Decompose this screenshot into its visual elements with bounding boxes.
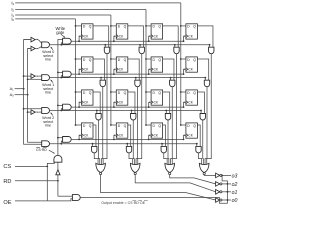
node write row0 stub1 [113, 40, 115, 42]
wire CK stub row1 col1 [113, 69, 116, 74]
and-gate read row0 col0 [104, 47, 109, 53]
node word0 write-gate tap [60, 44, 62, 46]
svg-text:line: line [45, 58, 51, 62]
svg-text:Q: Q [124, 58, 127, 62]
node data col0 row2 [75, 91, 77, 93]
wire Q output row1 col0 [93, 59, 104, 80]
wire D input row2 col1 [111, 91, 116, 93]
svg-text:Q: Q [89, 124, 92, 128]
or-gate column 1 [130, 163, 140, 172]
wire gate output row2 col0 [99, 120, 100, 164]
node data col2 row1 [145, 58, 147, 60]
wire select stub row1 col1 [135, 78, 137, 81]
wire D input row3 col3 [181, 124, 186, 126]
memory cell FF02 [151, 24, 163, 39]
memory cell FF11 [116, 57, 128, 72]
wire Q output row3 col3 [197, 125, 200, 146]
node word3 gate0 tap [92, 143, 94, 145]
svg-text:RD: RD [3, 179, 11, 185]
bubble or column 2 [169, 172, 171, 174]
wire Q output row1 col1 [128, 59, 139, 80]
node data col2 row3 [145, 124, 147, 126]
node data col3 row1 [180, 58, 182, 60]
wire gate output row1 col1 [136, 87, 137, 165]
wire OR output column 3 [204, 174, 215, 177]
wire RD to OE gate [58, 195, 73, 197]
svg-text:Q: Q [193, 124, 196, 128]
wire RD down [57, 181, 59, 196]
node data col2 row2 [145, 91, 147, 93]
node enable o2 [227, 183, 229, 185]
and-gate read row1 col3 [204, 80, 209, 87]
memory cell FF30 [82, 123, 94, 138]
wire dec0 lower slant [38, 47, 41, 49]
wire data line I1 [15, 14, 111, 16]
wire output o3 [222, 174, 231, 176]
node word3 write-gate tap [60, 143, 62, 145]
memory cell FF00 [82, 24, 94, 39]
wire Q output row2 col2 [163, 92, 170, 114]
and-gate read row3 col1 [126, 146, 131, 152]
wire D input row3 col1 [111, 124, 116, 126]
wire dec2 lower2 [38, 111, 41, 113]
svg-text:Q: Q [124, 124, 127, 128]
wire dec0 upper slant [38, 40, 41, 43]
memory cell FF13 [186, 57, 198, 72]
wire CK stub row2 col2 [148, 102, 151, 107]
wire write gate 2 lower input [61, 109, 62, 111]
wire gate output row3 col3 [199, 153, 202, 164]
wire select stub row3 col2 [161, 144, 163, 147]
node bus A0 dec1 [27, 78, 29, 80]
node data col2 row0 [145, 25, 147, 27]
wire CK stub row3 col0 [78, 135, 81, 139]
and-gate word3 decoder [42, 141, 50, 147]
memory cell FF31 [116, 123, 128, 138]
and-gate read row2 col1 [131, 114, 136, 120]
wire select stub row1 col0 [100, 78, 102, 81]
and-gate read row3 col3 [196, 146, 201, 153]
wire D input row2 col2 [146, 91, 151, 93]
and-gate read row3 col0 [92, 146, 97, 153]
node write row1 stub2 [148, 73, 150, 75]
inverter word0 A0 [31, 46, 35, 51]
wire A0 [15, 94, 28, 96]
node word1 write-gate tap [60, 77, 62, 79]
svg-text:Q: Q [158, 91, 161, 95]
node write vertical row1 [57, 72, 59, 74]
arrow dec1 upper [35, 75, 36, 77]
node data col0 row3 [75, 124, 77, 126]
node data col1 row1 [110, 58, 112, 60]
and-gate read row0 col3 [209, 47, 214, 53]
wire write line row 0 [71, 40, 183, 42]
node data col0 row0 [75, 25, 77, 27]
wire CK stub row0 col1 [113, 36, 116, 41]
bubble o2 [220, 183, 222, 185]
wire gate output row0 col3 [207, 54, 212, 165]
wire select stub row3 col1 [126, 144, 128, 147]
wire OR output column 0 [101, 175, 216, 200]
node word3 gate1 tap [126, 143, 128, 145]
wire CK stub row1 col2 [148, 69, 151, 74]
node bus A1 dec1 [23, 75, 25, 77]
node write row1 stub1 [113, 73, 115, 75]
node word1 gate1 tap [135, 77, 137, 79]
node data col1 row0 [110, 25, 112, 27]
wire OE to gate [47, 199, 72, 201]
wire gate output row0 col1 [138, 54, 142, 165]
svg-text:o2: o2 [232, 182, 238, 188]
node RD [57, 180, 59, 182]
node write row2 stub1 [113, 106, 115, 108]
wire CS down [46, 166, 48, 201]
svg-text:Q: Q [124, 25, 127, 29]
arrow CS.RD label [49, 150, 53, 152]
and-gate write gate 2 [63, 104, 72, 110]
wire data column 3 vertical [180, 3, 182, 125]
node data col3 row0 [180, 25, 182, 27]
wire data line I2 [15, 9, 146, 11]
arrow write gate label [61, 34, 64, 37]
wire Q output row0 col0 [93, 26, 109, 47]
node data col0 row1 [75, 58, 77, 60]
bubble or column 1 [134, 172, 136, 174]
wire write gate 3 lower input [61, 141, 62, 144]
wire CK stub row3 col2 [148, 135, 151, 139]
node word2 gate0 tap [96, 110, 98, 112]
wire CK stub row0 col2 [148, 36, 151, 41]
svg-text:Q: Q [193, 58, 196, 62]
svg-text:Q: Q [158, 58, 161, 62]
node write row2 stub0 [78, 106, 80, 108]
wire write gate 3 upper input [58, 137, 63, 139]
and-gate write gate 0 [63, 38, 72, 44]
wire OR output column 1 [135, 175, 215, 192]
wire CK stub row1 col0 [78, 69, 81, 74]
svg-text:Q: Q [89, 25, 92, 29]
svg-text:o3: o3 [232, 173, 238, 179]
wire write enable vertical [58, 40, 63, 156]
node write row0 stub2 [148, 40, 150, 42]
wire RD [15, 180, 58, 182]
wire write line row 1 [71, 73, 183, 75]
wire Q output row3 col2 [163, 125, 166, 146]
wire data line I3 [15, 2, 181, 4]
inverter word1 A1 [31, 74, 35, 79]
wire write gate 1 lower input [61, 76, 62, 78]
wire dec2 lower [28, 111, 31, 113]
svg-text:line: line [45, 91, 51, 95]
and-gate read row1 col2 [170, 80, 175, 87]
wire write gate 2 upper input [58, 104, 63, 106]
wire Q output row3 col0 [93, 125, 96, 146]
or-gate column 2 [165, 163, 175, 172]
node A0 tap [27, 94, 29, 96]
and-gate read row1 col1 [135, 80, 140, 86]
wire A1 [15, 88, 24, 90]
svg-text:Q: Q [193, 91, 196, 95]
or-gate column 3 [199, 163, 209, 172]
bubble or column 3 [203, 172, 205, 174]
wire output o1 [222, 191, 231, 193]
wire gate output row0 col2 [172, 54, 176, 165]
node write row3 stub3 [183, 139, 185, 141]
tri-state buffer o2 [216, 182, 220, 187]
node word3 gate2 tap [161, 143, 163, 145]
arrow word 0 label [51, 48, 53, 50]
node word1 gate3 tap [204, 77, 206, 79]
wire select stub row2 col0 [96, 111, 98, 114]
wire write line row 2 [71, 106, 183, 108]
node enable o1 [227, 191, 229, 193]
svg-text:A1: A1 [10, 87, 14, 91]
node bus A0 dec2 [27, 111, 29, 113]
wire write line row 3 [71, 138, 183, 140]
wire write gate 1 upper input [58, 71, 63, 73]
node enable o3 [221, 175, 223, 177]
node word0 gate3 tap [209, 44, 211, 46]
wire Q output row2 col0 [93, 92, 100, 114]
node write row1 stub0 [78, 73, 80, 75]
bubble o1 [220, 191, 222, 193]
wire gate output row0 col0 [103, 54, 107, 165]
arrow word 2 label [51, 113, 53, 115]
wire Q output row0 col2 [163, 26, 179, 47]
wire Q output row2 col1 [128, 92, 135, 114]
wire D input row0 col2 [146, 25, 151, 27]
wire Q output row1 col2 [163, 59, 174, 80]
wire word1 select line [50, 77, 206, 79]
arrow dec2 lower [35, 111, 36, 113]
wire data line I0 [15, 18, 75, 20]
wire dec2 upper [24, 108, 42, 110]
inverter word0 A1 [31, 37, 35, 42]
node write row2 stub2 [148, 106, 150, 108]
wire gate output row3 col2 [164, 153, 167, 164]
svg-text:Q: Q [158, 124, 161, 128]
svg-text:Q: Q [89, 91, 92, 95]
svg-text:Output enable = CS·RD·OE: Output enable = CS·RD·OE [101, 201, 145, 205]
wire address bus A1 vertical [24, 40, 42, 145]
wire D input row0 col1 [111, 25, 116, 27]
and-gate read row3 col2 [161, 146, 166, 152]
node data col3 row3 [180, 124, 182, 126]
wire gate output row2 col1 [133, 120, 134, 164]
wire select stub row2 col1 [131, 111, 133, 114]
wire select stub row0 col0 [104, 45, 106, 47]
and-gate read row0 col1 [139, 47, 144, 53]
wire D input row1 col1 [111, 58, 116, 60]
node word2 gate3 tap [200, 110, 202, 112]
node CS [46, 166, 48, 168]
node write row0 stub3 [183, 40, 185, 42]
wire output o2 [222, 183, 231, 185]
wire CS up jog [47, 162, 54, 166]
wire gate output row1 col0 [101, 87, 102, 165]
wire OE [15, 200, 47, 202]
wire gate output row3 col1 [129, 153, 133, 164]
wire dec1 upper2 [38, 75, 41, 77]
wire CK stub row2 col1 [113, 102, 116, 107]
wire select stub row0 col1 [139, 45, 141, 47]
wire select stub row3 col0 [92, 144, 94, 147]
wire dec0 lower [28, 48, 31, 50]
wire D input row2 col0 [76, 91, 82, 93]
wire dec0 upper [24, 39, 31, 41]
wire D input row0 col0 [76, 25, 82, 27]
node word0 gate1 tap [139, 44, 141, 46]
wire CS [15, 165, 47, 167]
wire enable bus [80, 175, 227, 203]
wire Q output row3 col1 [128, 125, 131, 146]
wire word3 select line [50, 143, 197, 145]
arrow dec0 lower [35, 48, 36, 50]
memory cell FF03 [186, 24, 198, 39]
svg-text:gate: gate [56, 30, 65, 35]
wire output o0 [222, 199, 231, 201]
node word2 gate1 tap [131, 110, 133, 112]
svg-text:Q: Q [158, 25, 161, 29]
wire CK stub row0 col3 [183, 36, 186, 41]
wire gate output row1 col2 [171, 87, 173, 165]
and-gate output enable [72, 195, 80, 201]
wire data column 2 vertical [145, 10, 147, 126]
wire D input row1 col2 [146, 58, 151, 60]
memory cell FF23 [186, 90, 198, 105]
and-gate read row0 col2 [174, 47, 179, 53]
wire word2 select line [50, 110, 202, 112]
svg-text:OE: OE [3, 200, 11, 206]
wire OR output column 2 [170, 175, 216, 184]
wire data column 0 vertical [75, 19, 77, 125]
node word1 gate0 tap [100, 77, 102, 79]
bubble o3 [220, 174, 222, 176]
wire gate output row2 col3 [202, 120, 205, 164]
node write row1 stub3 [183, 73, 185, 75]
tri-state buffer o0 [216, 198, 220, 203]
and-gate read row2 col0 [96, 114, 101, 121]
node word2 gate2 tap [165, 110, 167, 112]
and-gate word0 decoder [42, 42, 50, 48]
wire RD up [57, 175, 59, 181]
and-gate read row2 col2 [165, 114, 170, 120]
node write row3 stub0 [78, 139, 80, 141]
wire dec1 upper [24, 75, 31, 77]
node enable o0 [227, 199, 229, 201]
tri-state buffer o1 [216, 190, 220, 195]
wire gate output row3 col0 [94, 153, 98, 164]
node word1 gate2 tap [170, 77, 172, 79]
wire write gate 0 lower input [61, 43, 62, 45]
node data col1 row2 [110, 91, 112, 93]
wire data column 1 vertical [110, 15, 112, 125]
node word2 write-gate tap [60, 110, 62, 112]
memory cell FF33 [186, 123, 198, 138]
node write row3 stub1 [113, 139, 115, 141]
svg-text:A0: A0 [10, 93, 14, 97]
wire dec1 lower [28, 78, 42, 80]
wire select stub row0 col3 [209, 45, 211, 47]
wire select stub row0 col2 [174, 45, 176, 47]
bubble o0 [220, 199, 222, 201]
bubble or column 0 [100, 172, 102, 174]
wire RD buffered [57, 162, 59, 169]
wire Q output row0 col1 [128, 26, 144, 47]
node bus A1 dec2 [23, 108, 25, 110]
wire Q output row0 col3 [197, 26, 213, 47]
memory cell FF01 [116, 24, 128, 39]
wire select stub row2 col2 [165, 111, 167, 114]
svg-text:line: line [45, 124, 51, 128]
node write row0 stub0 [78, 40, 80, 42]
node data col3 row2 [180, 91, 182, 93]
tri-state buffer o3 [216, 173, 220, 178]
node write row3 stub2 [148, 139, 150, 141]
memory cell FF21 [116, 90, 128, 105]
wire D input row0 col3 [181, 25, 186, 27]
wire CK stub row2 col3 [183, 102, 186, 107]
wire gate output row2 col2 [167, 120, 170, 164]
wire address bus A0 vertical [28, 49, 42, 143]
or-gate column 0 [96, 163, 106, 172]
wire D input row3 col0 [76, 124, 82, 126]
node word0 gate0 tap [104, 44, 106, 46]
and-gate word1 decoder [42, 75, 50, 81]
memory cell FF22 [151, 90, 163, 105]
svg-text:CS: CS [3, 164, 11, 170]
node write vertical row3 [57, 137, 59, 139]
and-gate word2 decoder [42, 108, 50, 114]
node data col1 row3 [110, 124, 112, 126]
inverter word2 A0 [31, 110, 35, 115]
and-gate write gate 1 [63, 71, 72, 77]
and-gate CS.RD [54, 155, 62, 162]
memory cell FF20 [82, 90, 94, 105]
wire CK stub row0 col0 [78, 36, 81, 41]
wire select stub row2 col3 [200, 111, 202, 114]
wire D input row1 col3 [181, 58, 186, 60]
wire D input row3 col2 [146, 124, 151, 126]
svg-text:Q: Q [89, 58, 92, 62]
and-gate read row1 col0 [100, 80, 105, 86]
wire D input row1 col0 [76, 58, 82, 60]
wire D input row2 col3 [181, 91, 186, 93]
node write vertical row2 [57, 105, 59, 107]
node word3 gate3 tap [196, 143, 198, 145]
wire CK stub row1 col3 [183, 69, 186, 74]
arrow dec0 upper [35, 39, 36, 41]
node A1 tap [23, 88, 25, 90]
svg-text:Q: Q [124, 91, 127, 95]
node write row2 stub3 [183, 106, 185, 108]
wire CK stub row3 col1 [113, 135, 116, 139]
svg-text:CS·RD: CS·RD [36, 148, 47, 152]
wire CK stub row3 col3 [183, 135, 186, 139]
svg-text:o1: o1 [232, 190, 238, 196]
and-gate write gate 3 [63, 137, 72, 143]
and-gate read row2 col3 [200, 114, 205, 121]
memory cell FF10 [82, 57, 94, 72]
wire word0 select line [50, 44, 210, 46]
arrow word 1 label [51, 80, 53, 82]
svg-text:o0: o0 [232, 198, 238, 204]
wire select stub row3 col3 [196, 144, 198, 147]
wire Q output row2 col3 [197, 92, 204, 114]
wire gate output row1 col3 [205, 87, 207, 165]
svg-text:Q: Q [193, 25, 196, 29]
wire Q output row1 col3 [197, 59, 208, 80]
